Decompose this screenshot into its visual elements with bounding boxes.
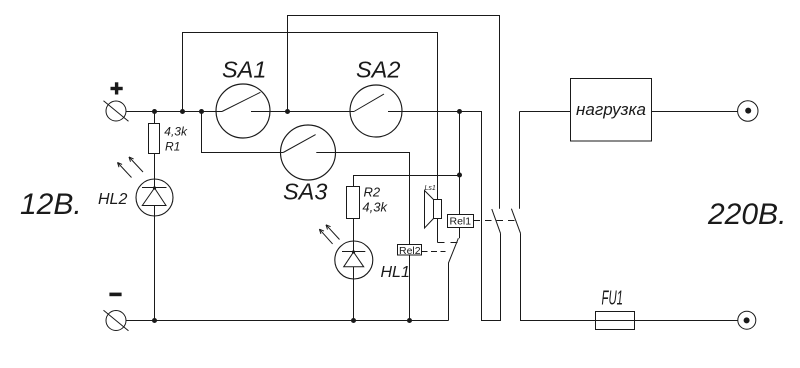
svg-text:12В.: 12В. xyxy=(20,188,82,221)
svg-text:SA2: SA2 xyxy=(356,57,400,83)
svg-text:FU1: FU1 xyxy=(602,288,624,310)
svg-text:4,3k: 4,3k xyxy=(164,124,188,138)
svg-text:HL2: HL2 xyxy=(98,191,127,208)
svg-text:R2: R2 xyxy=(364,185,381,200)
svg-text:нагрузка: нагрузка xyxy=(576,100,646,119)
svg-text:Rel2: Rel2 xyxy=(399,245,421,257)
svg-text:HL1: HL1 xyxy=(381,264,410,281)
svg-text:4,3k: 4,3k xyxy=(362,199,388,214)
svg-text:Ls1: Ls1 xyxy=(425,185,436,192)
svg-text:SA1: SA1 xyxy=(222,57,266,83)
svg-text:220В.: 220В. xyxy=(707,198,786,231)
svg-text:SA3: SA3 xyxy=(283,179,327,205)
svg-text:R1: R1 xyxy=(165,140,180,154)
svg-text:Rel1: Rel1 xyxy=(450,216,472,228)
